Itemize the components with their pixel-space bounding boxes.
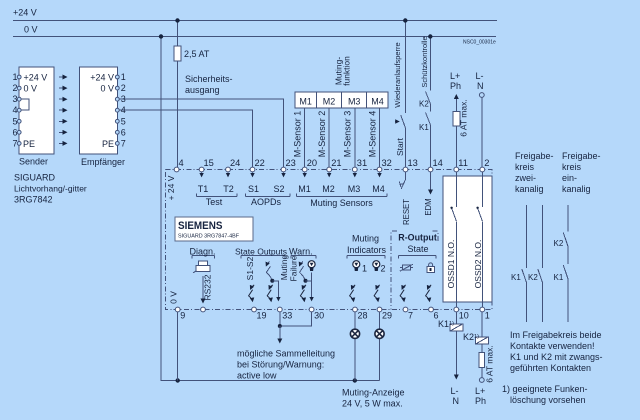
svg-text:29: 29 [382, 311, 392, 321]
svg-text:24 V, 5 W max.: 24 V, 5 W max. [342, 399, 403, 409]
svg-text:K1: K1 [511, 273, 521, 282]
svg-text:0 V: 0 V [100, 84, 114, 94]
svg-text:PE: PE [102, 139, 114, 149]
svg-text:24: 24 [230, 158, 240, 168]
svg-text:K1 und K2 mit zwangs-: K1 und K2 mit zwangs- [510, 352, 603, 362]
svg-text:Freigabe-: Freigabe- [515, 151, 554, 161]
svg-text:Warn.: Warn. [289, 247, 313, 257]
svg-text:M-Sensor 2: M-Sensor 2 [317, 111, 327, 158]
svg-text:M2: M2 [322, 184, 335, 194]
svg-text:N: N [453, 396, 460, 406]
svg-text:Failure: Failure [289, 255, 299, 281]
svg-text:K2: K2 [419, 100, 429, 109]
svg-text:Muting: Muting [352, 234, 379, 244]
svg-text:6: 6 [121, 127, 126, 137]
svg-text:1: 1 [12, 72, 17, 82]
svg-text:NSC0_00301e: NSC0_00301e [463, 40, 496, 46]
svg-text:M2: M2 [323, 97, 336, 107]
svg-text:13: 13 [408, 158, 418, 168]
svg-text:2: 2 [12, 83, 17, 93]
svg-text:OSSD2 N.O.: OSSD2 N.O. [473, 240, 483, 289]
svg-text:Sender: Sender [19, 157, 48, 167]
svg-text:2: 2 [381, 264, 386, 274]
svg-text:1: 1 [485, 311, 490, 321]
svg-text:9: 9 [180, 311, 185, 321]
svg-text:6: 6 [12, 127, 17, 137]
svg-text:OSSD1 N.O.: OSSD1 N.O. [446, 240, 456, 289]
svg-text:SIEMENS: SIEMENS [178, 220, 223, 232]
svg-text:4: 4 [179, 158, 184, 168]
svg-text:M-Sensor 3: M-Sensor 3 [343, 111, 353, 158]
svg-text:31: 31 [357, 158, 367, 168]
svg-text:L-: L- [451, 386, 459, 396]
svg-text:4: 4 [12, 105, 17, 115]
svg-text:3: 3 [121, 94, 126, 104]
svg-text:19: 19 [257, 311, 267, 321]
svg-text:Lichtvorhang/-gitter: Lichtvorhang/-gitter [14, 184, 87, 194]
svg-text:23: 23 [286, 158, 296, 168]
svg-text:4: 4 [121, 105, 126, 115]
svg-text:0 V: 0 V [24, 25, 38, 35]
svg-text:3RG7842: 3RG7842 [14, 195, 53, 205]
svg-text:Start: Start [395, 137, 405, 156]
svg-text:2: 2 [121, 83, 126, 93]
svg-text:PE: PE [23, 139, 35, 149]
svg-text:löschung vorsehen: löschung vorsehen [510, 395, 586, 405]
svg-text:33: 33 [282, 311, 292, 321]
svg-text:M-Sensor 4: M-Sensor 4 [367, 111, 377, 158]
svg-text:L-: L- [476, 71, 484, 81]
svg-text:kreis: kreis [515, 162, 535, 172]
svg-text:N: N [477, 81, 484, 91]
svg-text:7: 7 [408, 311, 413, 321]
svg-text:Ph: Ph [475, 396, 486, 406]
svg-text:M4: M4 [371, 97, 384, 107]
svg-text:Im Freigabekreis beide: Im Freigabekreis beide [510, 330, 602, 340]
svg-text:mögliche Sammelleitung: mögliche Sammelleitung [237, 349, 335, 359]
svg-text:S1: S1 [248, 184, 259, 194]
svg-text:20: 20 [307, 158, 317, 168]
svg-text:Ph: Ph [450, 81, 461, 91]
svg-text:+24 V: +24 V [24, 73, 48, 83]
svg-text:Muting-Anzeige: Muting-Anzeige [342, 388, 405, 398]
svg-text:1) geeignete Funken-: 1) geeignete Funken- [502, 384, 588, 394]
svg-text:R-Output: R-Output [398, 233, 437, 243]
svg-text:L+: L+ [450, 71, 460, 81]
svg-text:Test: Test [206, 197, 223, 207]
svg-text:Muting Sensors: Muting Sensors [310, 198, 373, 208]
svg-text:SIGUARD: SIGUARD [14, 173, 56, 183]
svg-text:kreis: kreis [562, 162, 582, 172]
svg-text:active low: active low [237, 371, 277, 381]
svg-text:geführten Kontakten: geführten Kontakten [510, 363, 591, 373]
svg-text:S2: S2 [273, 184, 284, 194]
svg-text:zwei-: zwei- [515, 173, 536, 183]
svg-text:22: 22 [255, 158, 265, 168]
svg-text:State: State [408, 244, 429, 254]
svg-text:K1: K1 [554, 273, 564, 282]
svg-text:6 AT max.: 6 AT max. [485, 345, 495, 382]
svg-text:funktion: funktion [342, 56, 352, 86]
svg-text:0 V: 0 V [169, 291, 179, 304]
svg-text:15: 15 [204, 158, 214, 168]
svg-text:0 V: 0 V [24, 84, 38, 94]
svg-text:10: 10 [459, 311, 469, 321]
svg-text:K2: K2 [528, 273, 538, 282]
svg-text:+24 V: +24 V [90, 73, 114, 83]
svg-text:1: 1 [121, 72, 126, 82]
svg-text:kanalig: kanalig [515, 184, 544, 194]
svg-text:Empfänger: Empfänger [81, 157, 125, 167]
svg-text:5: 5 [121, 116, 126, 126]
svg-text:RS232: RS232 [203, 274, 213, 300]
svg-text:bei Störung/Warnung:: bei Störung/Warnung: [237, 360, 324, 370]
svg-text:M4: M4 [372, 184, 385, 194]
svg-text:S1-S2: S1-S2 [245, 256, 255, 280]
svg-text:K1: K1 [419, 123, 429, 132]
svg-text:2: 2 [484, 158, 489, 168]
svg-text:M-Sensor 1: M-Sensor 1 [293, 111, 303, 158]
svg-text:Muting: Muting [279, 254, 289, 280]
svg-text:11: 11 [458, 158, 468, 168]
svg-text:28: 28 [358, 311, 368, 321]
svg-text:K2: K2 [554, 239, 564, 248]
svg-text:5: 5 [12, 116, 17, 126]
svg-text:32: 32 [382, 158, 392, 168]
svg-text:T1: T1 [198, 184, 209, 194]
svg-text:14: 14 [433, 158, 443, 168]
svg-text:M1: M1 [298, 184, 311, 194]
svg-text:RESET: RESET [402, 199, 411, 225]
svg-text:Sicherheits-: Sicherheits- [185, 74, 233, 84]
svg-text:M3: M3 [348, 184, 361, 194]
svg-text:2,5 AT: 2,5 AT [184, 49, 210, 59]
svg-text:6 AT max.: 6 AT max. [459, 99, 469, 136]
svg-text:Diagn.: Diagn. [190, 247, 216, 257]
svg-text:+24 V: +24 V [13, 8, 37, 18]
svg-text:7: 7 [121, 138, 126, 148]
svg-text:3: 3 [12, 94, 17, 104]
svg-text:M3: M3 [348, 97, 361, 107]
svg-text:SIGUARD 3RG7847-4BF: SIGUARD 3RG7847-4BF [178, 234, 240, 240]
svg-text:L+: L+ [475, 386, 485, 396]
svg-text:AOPDs: AOPDs [251, 197, 282, 207]
svg-text:T2: T2 [223, 184, 234, 194]
svg-text:Wiederanlaufsperre: Wiederanlaufsperre [393, 42, 402, 107]
svg-text:30: 30 [314, 311, 324, 321]
svg-text:1: 1 [362, 264, 367, 274]
svg-text:kanalig: kanalig [562, 184, 591, 194]
svg-text:EDM: EDM [424, 198, 433, 215]
svg-text:ausgang: ausgang [185, 85, 220, 95]
svg-text:Freigabe-: Freigabe- [562, 151, 601, 161]
svg-text:Kontakte verwenden!: Kontakte verwenden! [510, 341, 595, 351]
svg-text:ein-: ein- [562, 173, 577, 183]
svg-text:Indicators: Indicators [347, 245, 387, 255]
svg-text:Schützkontrolle: Schützkontrolle [420, 36, 429, 87]
svg-text:21: 21 [331, 158, 341, 168]
svg-text:7: 7 [12, 138, 17, 148]
svg-text:M1: M1 [299, 97, 312, 107]
svg-text:+ 24 V: + 24 V [166, 175, 176, 200]
